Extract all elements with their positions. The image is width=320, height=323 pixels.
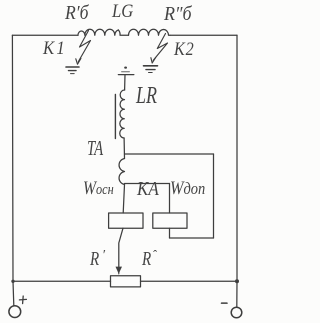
- wire Wdop top lead: [169, 184, 171, 214]
- wire bottom right: [141, 280, 238, 282]
- label R'b: [65, 3, 88, 23]
- junction dot left: [11, 280, 14, 283]
- label Wosn: [83, 179, 114, 198]
- relay winding Wosn (box): [109, 213, 143, 228]
- label R': [90, 249, 99, 269]
- resistor R (bottom, tapped): [111, 276, 141, 287]
- wire LR to TA: [123, 138, 125, 159]
- terminal + (circle): [9, 306, 21, 318]
- label TA: [87, 138, 103, 159]
- label minus: [222, 302, 228, 304]
- label KA: [137, 179, 159, 199]
- label R"b: [164, 4, 192, 24]
- relay winding Wdop (box): [153, 213, 187, 228]
- wire to plus terminal: [12, 281, 15, 305]
- label LG: [112, 3, 133, 22]
- lightning arrow K2: [153, 34, 167, 61]
- wire TA top to inner rail: [125, 153, 214, 155]
- ground (K1): [66, 66, 79, 68]
- terminal - (circle): [231, 307, 242, 318]
- wire Wosn box to wiper arrow: [119, 228, 123, 266]
- node dot above T-bar: [124, 67, 127, 69]
- T-bar (top of LR branch): [118, 74, 133, 76]
- label Wdop: [170, 179, 205, 198]
- junction dot right: [235, 279, 239, 283]
- label R": [142, 249, 151, 269]
- wire to minus terminal: [236, 281, 238, 307]
- inductor LR: [120, 90, 125, 138]
- lightning arrow K1: [78, 31, 90, 62]
- wire inner bottom: [170, 237, 214, 239]
- wire bottom left: [13, 280, 111, 282]
- wire inner right rail: [213, 154, 215, 238]
- label K2: [174, 40, 195, 59]
- wire T-bar to LR: [124, 75, 126, 90]
- label LR: [136, 84, 157, 108]
- wiper arrowhead: [116, 267, 123, 274]
- wire left rail: [11, 35, 14, 281]
- wire top-right segment: [170, 34, 237, 36]
- short bar: [122, 71, 130, 73]
- wire right rail: [236, 35, 238, 281]
- wire TA to Wosn box: [123, 185, 124, 214]
- wire TA bottom to Wdop: [125, 183, 170, 185]
- ground (K2): [144, 65, 158, 67]
- wire Wdop bottom lead: [169, 228, 171, 238]
- label K1: [43, 39, 67, 58]
- label plus: [19, 296, 26, 304]
- wire top-left segment: [12, 34, 78, 36]
- core bar of LR: [114, 95, 116, 139]
- inductor R'b (left coil group): [78, 29, 118, 35]
- inductor LG / R"b (right coil group): [129, 29, 164, 35]
- transformer TA (secondary loops): [119, 159, 124, 185]
